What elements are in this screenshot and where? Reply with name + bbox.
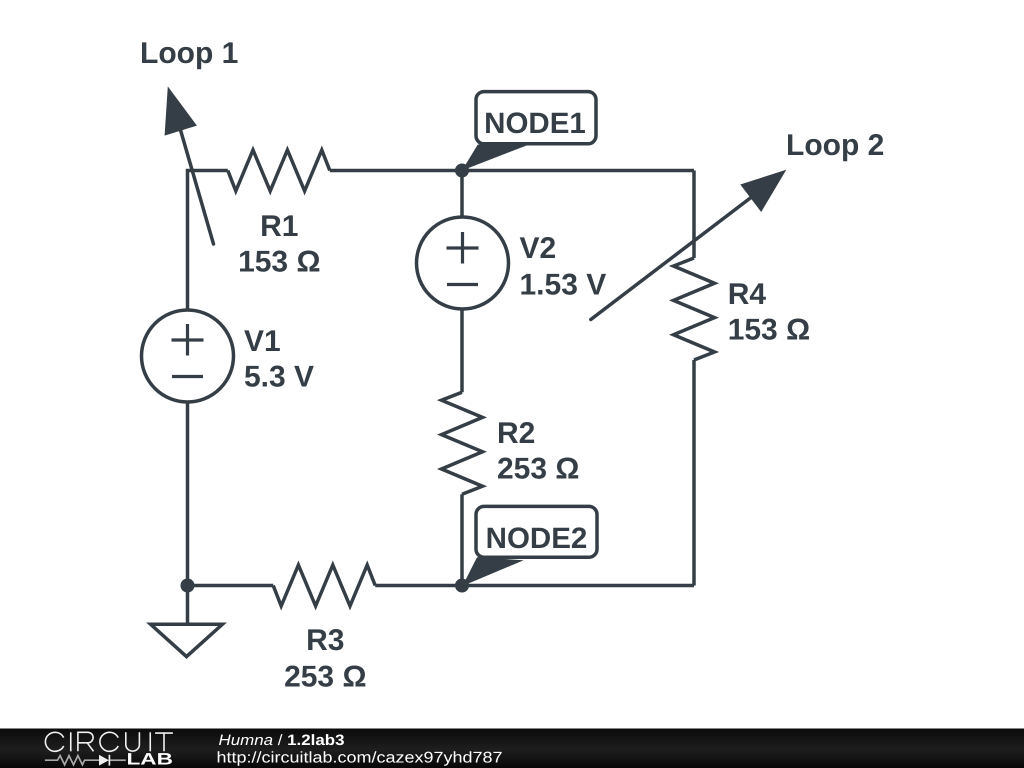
label R3 [284, 624, 366, 694]
svg-text:V2: V2 [520, 232, 557, 265]
logo CIRCUIT letters [45, 732, 173, 751]
wire V2 to R2 [460, 309, 464, 392]
node NODE1 callout wedge [462, 145, 527, 171]
logo resistor-diode squiggle [45, 756, 126, 765]
svg-text:R1: R1 [260, 210, 298, 243]
V2 minus sign [447, 283, 478, 286]
svg-text:Humna / 1.2lab3: Humna / 1.2lab3 [219, 732, 345, 749]
node junction dot ground [181, 579, 195, 593]
V2 plus sign [447, 232, 479, 264]
logo diode bar [108, 755, 110, 766]
voltage source V2 [417, 217, 509, 309]
resistor R4 [674, 258, 715, 360]
resistor R2 [442, 392, 483, 494]
footer bar [0, 729, 1024, 768]
svg-text:253 Ω: 253 Ω [497, 453, 579, 486]
node NODE2 callout wedge [463, 557, 524, 586]
wire bottom right [375, 584, 694, 588]
node junction dot NODE2 [455, 579, 469, 593]
logo diode triangle [99, 755, 109, 766]
svg-text:253 Ω: 253 Ω [284, 661, 366, 694]
svg-text:Loop 1: Loop 1 [140, 37, 238, 70]
label R4 [728, 278, 810, 347]
node junction dot NODE1 [455, 164, 469, 178]
wire left vertical lower [186, 402, 190, 586]
svg-text:http://circuitlab.com/cazex97y: http://circuitlab.com/cazex97yhd787 [217, 749, 503, 766]
wire top-left vertical [188, 171, 228, 311]
svg-text:1.53 V: 1.53 V [520, 269, 607, 302]
svg-text:NODE1: NODE1 [484, 107, 586, 140]
svg-text:5.3 V: 5.3 V [244, 361, 314, 394]
svg-text:R4: R4 [728, 278, 767, 311]
wire right vertical lower [692, 360, 696, 586]
wire middle vertical upper [460, 171, 464, 218]
label R1 [238, 210, 320, 279]
wire right vertical upper [692, 171, 696, 259]
label V1 [244, 325, 314, 394]
node NODE2 box [476, 506, 597, 557]
node NODE1 box [476, 92, 596, 144]
V1 minus sign [172, 375, 203, 378]
loop 2 arrow [591, 170, 787, 320]
wire top to node1 [330, 169, 694, 173]
svg-text:153 Ω: 153 Ω [728, 314, 810, 347]
label V2 [520, 232, 607, 302]
resistor R1 [228, 150, 330, 191]
svg-text:153 Ω: 153 Ω [238, 246, 320, 279]
svg-text:V1: V1 [244, 325, 281, 358]
label R2 [497, 417, 579, 486]
wire R2 to node2 [460, 494, 464, 585]
wire bottom left [188, 584, 274, 588]
resistor R3 [273, 565, 375, 606]
svg-text:R2: R2 [497, 417, 535, 450]
loop 1 arrow [165, 86, 214, 244]
svg-text:R3: R3 [306, 624, 344, 657]
ground [151, 624, 223, 656]
svg-text:Loop 2: Loop 2 [786, 129, 884, 162]
svg-text:LAB: LAB [127, 751, 173, 768]
V1 plus sign [172, 324, 204, 356]
svg-text:NODE2: NODE2 [486, 522, 588, 555]
ground wire stub [186, 586, 190, 625]
voltage source V1 [142, 310, 234, 402]
